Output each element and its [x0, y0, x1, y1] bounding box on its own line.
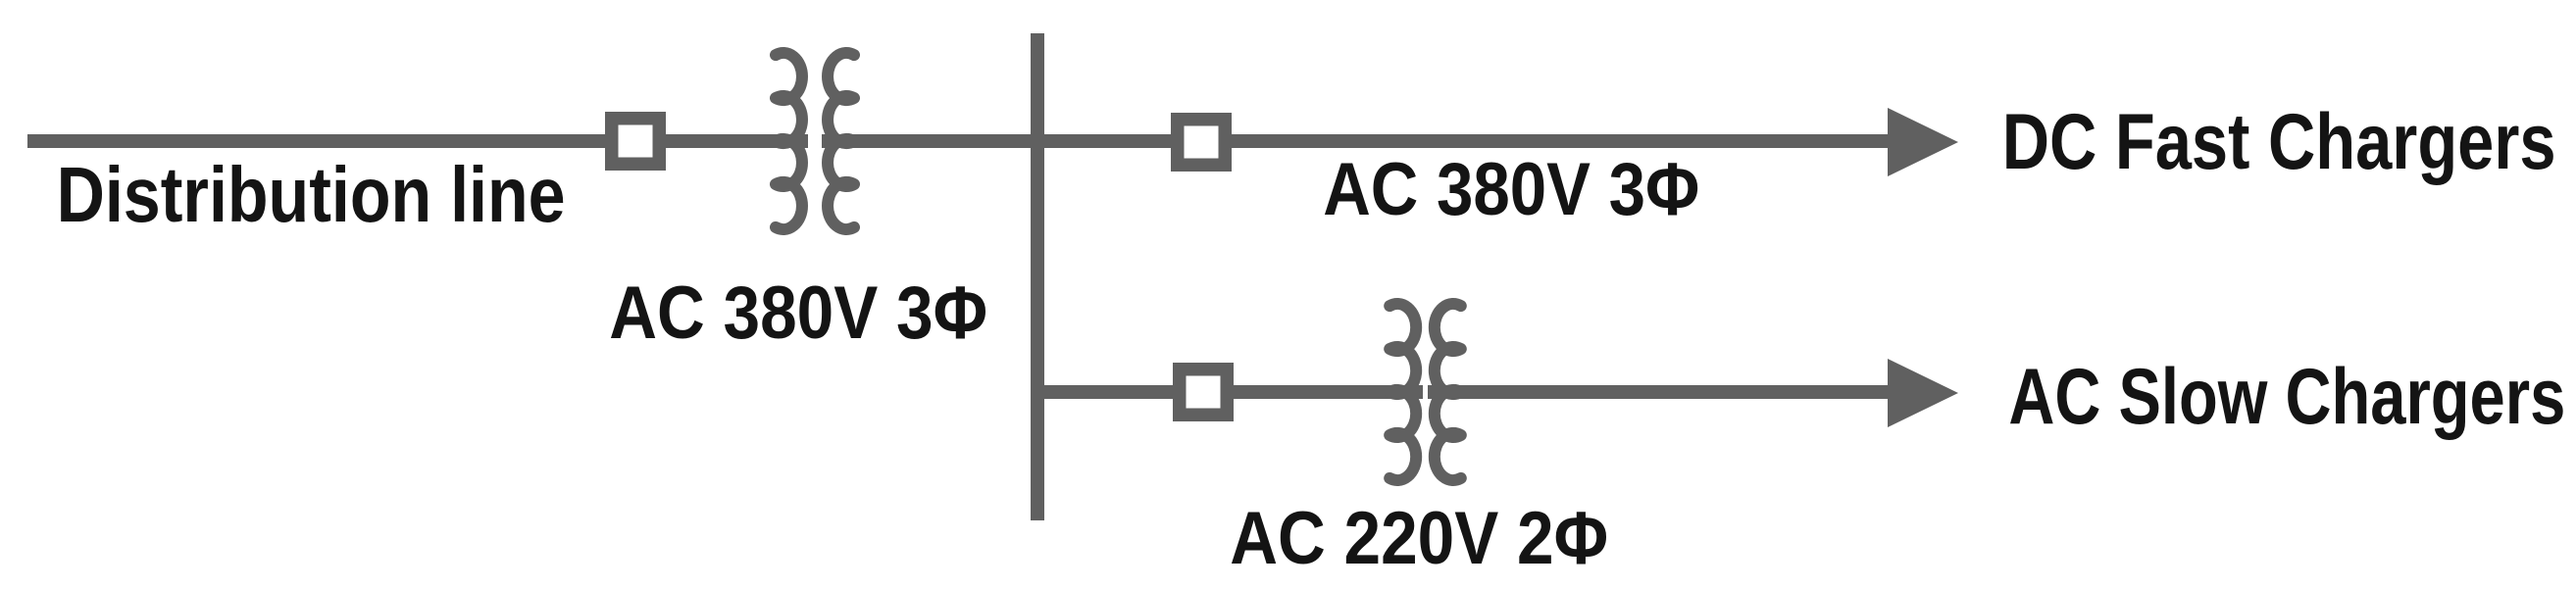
svg-text:Distribution line: Distribution line	[57, 151, 566, 238]
svg-text:AC Slow Chargers: AC Slow Chargers	[2008, 351, 2565, 440]
svg-text:DC Fast Chargers: DC Fast Chargers	[2002, 97, 2556, 186]
svg-text:AC 380V 3Φ: AC 380V 3Φ	[609, 271, 987, 355]
svg-text:AC 380V 3Φ: AC 380V 3Φ	[1323, 148, 1699, 231]
svg-text:AC 220V 2Φ: AC 220V 2Φ	[1230, 497, 1608, 580]
